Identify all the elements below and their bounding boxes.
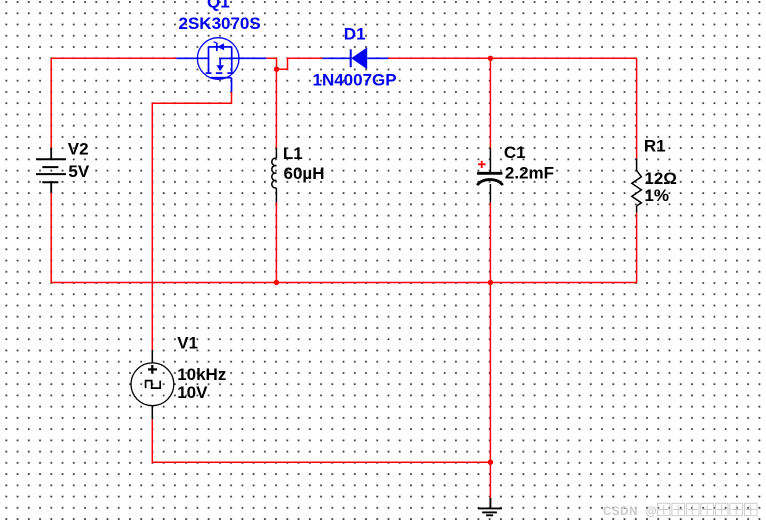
- resistor R1: [632, 159, 642, 213]
- wire battery bottom to mid rail: [50, 193, 52, 283]
- diode D1: [322, 47, 388, 69]
- inductor L1: [272, 148, 277, 202]
- battery V2: [36, 148, 66, 193]
- watermark CJK glyph boxes: [657, 503, 757, 515]
- wire top rail left segment: [51, 57, 176, 59]
- node junction dot ground: [488, 460, 493, 465]
- svg-text:2.2mF: 2.2mF: [505, 163, 554, 182]
- svg-text:2SK3070S: 2SK3070S: [179, 14, 261, 33]
- wire mid rail: [51, 282, 637, 284]
- transistor Q1: [176, 38, 266, 92]
- wire C1 bottom to ground node: [489, 203, 491, 463]
- wire R1 bottom branch: [636, 213, 638, 284]
- source V1: [131, 350, 174, 419]
- node junction dot drain: [274, 67, 279, 72]
- svg-text:60µH: 60µH: [284, 164, 325, 183]
- wire V1 bottom to ground node: [152, 419, 490, 462]
- wire L1 bottom branch: [275, 203, 277, 283]
- capacitor C1: [477, 148, 503, 202]
- wire R1 top branch: [636, 58, 638, 158]
- svg-text:Q1: Q1: [207, 0, 230, 11]
- svg-text:V1: V1: [177, 334, 198, 353]
- node junction dot C1 bottom: [488, 280, 493, 285]
- wire ground stub: [489, 462, 491, 498]
- node junction dot L1 bottom: [274, 280, 279, 285]
- wire left rail: [50, 58, 52, 148]
- wire mosfet drain jog: [266, 58, 322, 69]
- svg-text:10V: 10V: [177, 383, 208, 402]
- C1 polarity plus: [478, 161, 486, 168]
- svg-text:V2: V2: [68, 140, 89, 159]
- wire L1 top branch: [275, 69, 277, 148]
- svg-text:1N4007GP: 1N4007GP: [313, 71, 397, 90]
- svg-text:CSDN: CSDN: [603, 506, 638, 518]
- svg-text:C1: C1: [504, 143, 526, 162]
- ground: [478, 498, 502, 515]
- wire C1 top branch: [489, 58, 491, 148]
- svg-text:1%: 1%: [644, 186, 669, 205]
- svg-text:10kHz: 10kHz: [177, 365, 226, 384]
- wire diode to right corner: [388, 57, 637, 59]
- svg-text:L1: L1: [283, 144, 303, 163]
- node junction dot C1 top: [488, 56, 493, 61]
- svg-text:@: @: [646, 506, 657, 518]
- svg-text:R1: R1: [644, 137, 666, 156]
- svg-text:D1: D1: [344, 24, 366, 43]
- svg-text:12Ω: 12Ω: [644, 169, 677, 188]
- wire gate to V1: [152, 92, 231, 350]
- svg-text:5V: 5V: [68, 162, 89, 181]
